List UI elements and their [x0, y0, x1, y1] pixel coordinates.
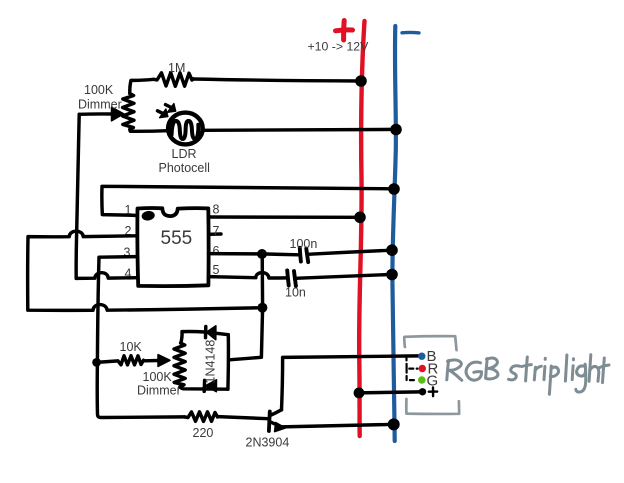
wire 220 to base	[218, 417, 268, 419]
strip pad plus	[419, 388, 426, 395]
wire C2 to GND rail	[295, 274, 392, 278]
light arrow 2	[166, 105, 172, 108]
V+ rail (red)	[359, 21, 364, 436]
strip pad G	[418, 376, 426, 384]
node C1/GND	[386, 244, 398, 256]
wiper arrow VR2	[145, 359, 158, 363]
node 1M/V+	[355, 75, 367, 87]
svg-text:100K: 100K	[143, 370, 173, 384]
wire LDR to GND rail	[203, 128, 396, 132]
pin7 stub	[209, 232, 222, 236]
svg-text:6: 6	[213, 244, 220, 258]
node emitter/GND	[388, 418, 400, 430]
capacitor C1 100n	[300, 248, 301, 262]
svg-text:LDR: LDR	[172, 147, 197, 161]
node V+/strip	[354, 388, 365, 399]
wire pin3 down to 220	[97, 257, 184, 418]
connector bracket top	[404, 336, 456, 350]
diode loop top wire	[181, 331, 229, 343]
wire emitter to GND rail	[282, 424, 394, 427]
wiper arrow VR1	[79, 112, 111, 116]
wire 1M left to pot top	[130, 79, 154, 93]
node C2/GND	[386, 269, 398, 281]
potentiometer VR1 100K	[123, 94, 134, 130]
wire wiper vertical	[76, 114, 79, 278]
svg-text:100n: 100n	[290, 237, 318, 251]
svg-text:8: 8	[213, 203, 220, 217]
wire pot bottom to LDR	[130, 130, 169, 132]
resistor R1 1M	[154, 73, 194, 87]
wire pin6 node to C1	[262, 252, 299, 256]
svg-text:Dimmer: Dimmer	[137, 384, 181, 398]
svg-text:Dimmer: Dimmer	[78, 98, 122, 112]
wire pin1 to GND rail	[102, 186, 394, 215]
dashed wire to G pad	[407, 369, 417, 381]
node pin1/GND	[388, 183, 400, 195]
LDR photocell body	[168, 113, 203, 145]
svg-text:5: 5	[213, 263, 220, 277]
strip pad R	[419, 365, 426, 372]
strip pad B	[418, 353, 425, 360]
resistor R2 10K	[97, 356, 144, 365]
diode D1 1N4148 top	[204, 327, 208, 338]
light arrow 1	[158, 111, 164, 114]
wire 1M to V+	[193, 79, 361, 81]
connector bracket bottom	[406, 399, 459, 414]
wire pin5 to C2 with hop	[209, 273, 288, 278]
svg-text:2N3904: 2N3904	[246, 436, 290, 450]
svg-text:+10 -> 12V: +10 -> 12V	[308, 40, 370, 54]
node LDR/GND	[390, 124, 402, 136]
diode D2 1N4148 bottom	[202, 380, 206, 391]
wire collector up and to B	[282, 356, 420, 410]
svg-text:220: 220	[193, 426, 214, 440]
GND rail (blue)	[392, 26, 395, 441]
IC U1 555 body	[137, 208, 208, 286]
wire V+ to strip plus	[359, 392, 420, 393]
svg-text:7: 7	[213, 224, 220, 238]
pin1 marker dot	[141, 210, 155, 221]
svg-text:1: 1	[125, 203, 132, 217]
wire C1 to GND rail	[308, 250, 393, 254]
svg-text:555: 555	[161, 228, 193, 249]
dashed wire to R pad	[406, 357, 417, 369]
diode loop bottom wire	[180, 387, 228, 389]
power plus symbol	[336, 21, 353, 41]
svg-text:10K: 10K	[120, 340, 143, 354]
node 10K junction	[92, 358, 101, 367]
svg-text:1M: 1M	[168, 61, 185, 75]
node pin8/V+	[354, 212, 366, 224]
wire pin4 to wiper vertical	[76, 273, 137, 279]
wire pin6 to node	[209, 252, 263, 256]
node pin2/pin6 junction	[257, 303, 267, 313]
resistor R3 220	[184, 412, 218, 422]
node pin6 junction	[257, 249, 267, 259]
LDR squiggle	[172, 121, 199, 139]
transistor Q1 2N3904	[267, 412, 272, 432]
potentiometer VR2 100K	[174, 343, 185, 387]
svg-text:10n: 10n	[285, 286, 306, 300]
svg-text:100K: 100K	[84, 83, 114, 97]
wire pin6 node down to diode loop	[230, 254, 263, 360]
svg-text:Photocell: Photocell	[159, 161, 210, 175]
svg-text:1N4148: 1N4148	[204, 340, 218, 384]
wire pin2 path	[28, 231, 263, 310]
wire pin8 to V+ rail	[209, 215, 361, 219]
diode loop right side	[226, 335, 230, 390]
capacitor C2 10n	[287, 270, 289, 285]
RGB strip light handwriting	[447, 355, 609, 395]
minus symbol	[402, 31, 419, 35]
